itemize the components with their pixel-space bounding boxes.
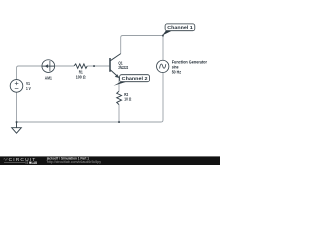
svg-text:V1: V1 bbox=[26, 81, 31, 86]
svg-text:2N2222: 2N2222 bbox=[118, 65, 128, 70]
svg-text:50 Hz: 50 Hz bbox=[172, 69, 181, 74]
svg-text:1 V: 1 V bbox=[26, 86, 31, 91]
svg-text:Channel 2: Channel 2 bbox=[122, 76, 148, 82]
svg-text:http://circuitlab.com/c6aud6r5: http://circuitlab.com/c6aud6r5c5py bbox=[47, 160, 102, 164]
svg-text:10 Ω: 10 Ω bbox=[124, 96, 131, 101]
svg-text:Channel 1: Channel 1 bbox=[167, 25, 193, 31]
svg-text:100 Ω: 100 Ω bbox=[76, 74, 86, 79]
svg-text:LAB: LAB bbox=[32, 161, 38, 165]
svg-text:AM1: AM1 bbox=[45, 76, 53, 81]
